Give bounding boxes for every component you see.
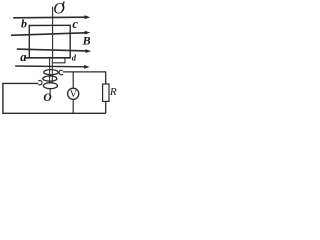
svg-text:O: O (53, 0, 65, 17)
svg-text:c: c (72, 17, 78, 31)
svg-text:B: B (82, 34, 91, 48)
svg-text:b: b (21, 17, 27, 31)
svg-text:a: a (20, 50, 26, 64)
svg-text:d: d (72, 52, 77, 62)
svg-text:O: O (43, 92, 51, 104)
svg-text:R: R (109, 86, 117, 98)
svg-text:V: V (70, 90, 77, 100)
